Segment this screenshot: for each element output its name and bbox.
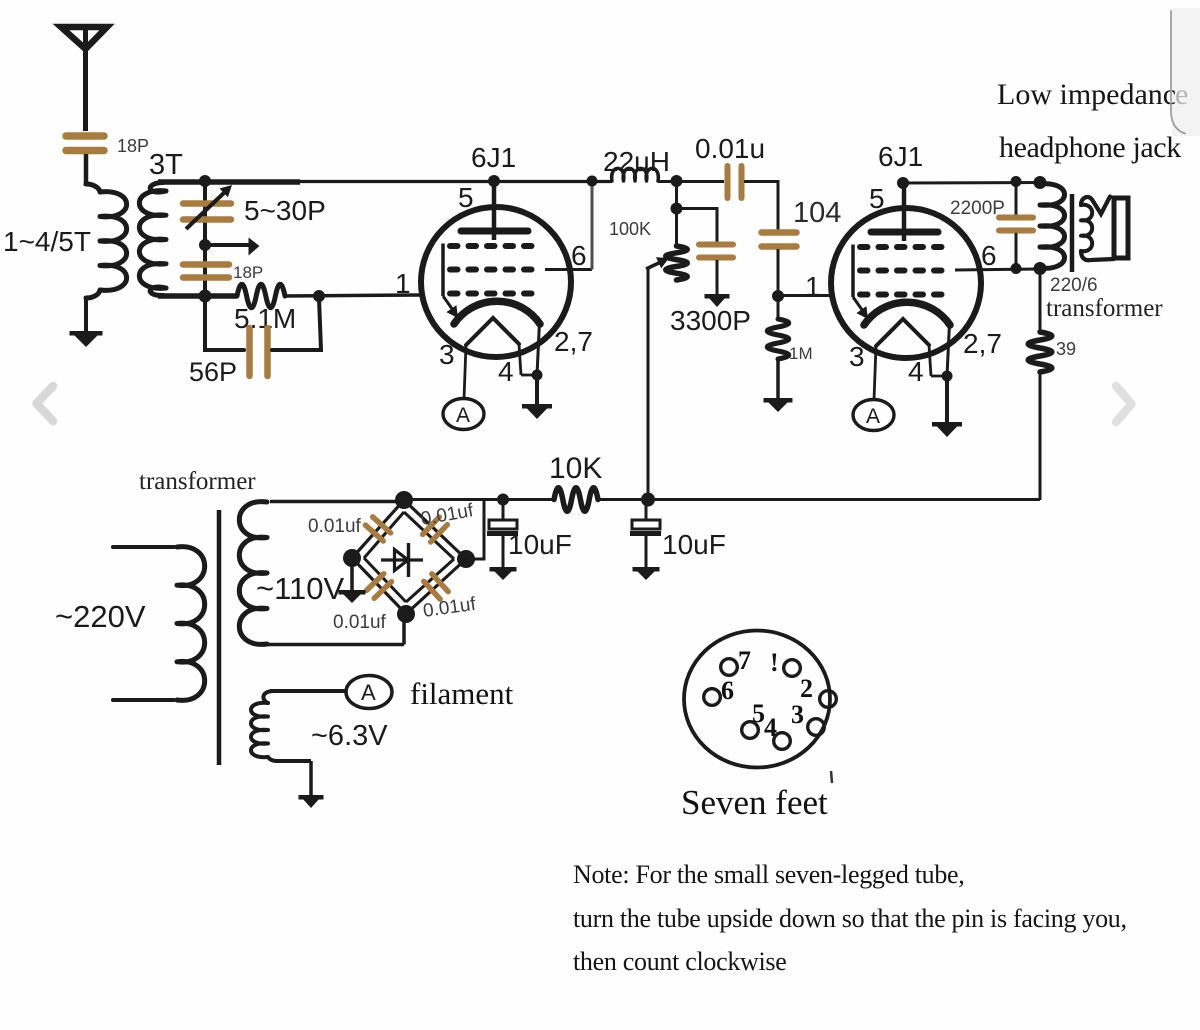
- label ~6.3V: [311, 720, 388, 752]
- wire V2 plate rail: [897, 177, 1040, 189]
- label 18P C1: [117, 136, 149, 156]
- label 18P C3: [233, 263, 263, 282]
- svg-text:transformer: transformer: [139, 468, 256, 495]
- node dots 2200P: [1011, 176, 1022, 274]
- svg-text:39: 39: [1056, 339, 1076, 359]
- pin 1 circle: [784, 660, 801, 677]
- wire antenna cap to coil L1: [84, 154, 89, 186]
- label 10uF (C8): [508, 529, 572, 560]
- label pin 2,7 V2: [963, 328, 1002, 359]
- svg-text:!: !: [770, 648, 779, 677]
- inductor L2 3T tuned coil: [139, 183, 166, 296]
- label pin 3 V2: [849, 341, 865, 372]
- svg-text:~220V: ~220V: [55, 599, 146, 634]
- label pin 1 V2: [805, 271, 821, 302]
- svg-text:18P: 18P: [233, 263, 263, 282]
- svg-text:5: 5: [752, 699, 765, 728]
- wire L1 to ground: [84, 296, 88, 333]
- node dot pot top: [671, 203, 683, 215]
- svg-text:2,7: 2,7: [554, 326, 593, 357]
- capacitor 0.01uf (bridge top-left): [365, 517, 390, 541]
- bridge rectifier inner diamond: [364, 512, 454, 602]
- svg-text:2,7: 2,7: [963, 328, 1002, 359]
- capacitor 0.01uf (bridge top-right): [423, 517, 448, 542]
- bridge rectifier D1-D4 outer diamond: [352, 500, 466, 614]
- transformer T1 filament winding ~6.3V: [251, 691, 347, 797]
- label 3300P: [670, 305, 751, 336]
- svg-text:then count clockwise: then count clockwise: [573, 947, 787, 976]
- svg-text:6: 6: [571, 240, 587, 271]
- label ~220V: [55, 599, 146, 634]
- svg-text:1: 1: [805, 271, 821, 302]
- capacitor C3 18P: [183, 265, 229, 278]
- capacitor C5 3300P: [677, 209, 734, 297]
- svg-text:0.01u: 0.01u: [695, 133, 765, 164]
- node dot bridge top: [395, 491, 413, 509]
- capacitor C8 10uF: [487, 500, 518, 569]
- svg-text:5: 5: [869, 183, 885, 214]
- wire R4 to node: [598, 498, 1040, 501]
- node dots T2 primary: [1034, 176, 1047, 275]
- svg-text:0.01uf: 0.01uf: [333, 612, 387, 633]
- left chevron (viewer prev): [37, 386, 54, 421]
- transformer T1 secondary ~110V: [239, 502, 404, 645]
- svg-text:6J1: 6J1: [471, 142, 516, 173]
- label pin 6 V1: [571, 240, 587, 271]
- svg-text:6J1: 6J1: [878, 141, 923, 172]
- svg-text:100K: 100K: [609, 219, 651, 239]
- antenna: [61, 27, 107, 131]
- node dot B+ node: [641, 493, 655, 507]
- node dot mid tap: [199, 239, 211, 251]
- label 39: [1056, 339, 1076, 359]
- label transformer (output): [1046, 295, 1163, 322]
- ground (R2 1M): [764, 398, 793, 412]
- node dot pin6 riser top: [587, 176, 598, 187]
- label 0.01uf bottom-left: [333, 612, 387, 633]
- node dot coil bottom: [199, 290, 212, 303]
- wire V1 plate to rail: [488, 175, 500, 187]
- svg-text:5: 5: [458, 182, 474, 213]
- pin label 3: [791, 700, 804, 729]
- pin label 4: [764, 713, 777, 742]
- label 0.01uf top-left: [308, 516, 362, 537]
- wire bridge right node to rail: [466, 500, 484, 559]
- transformer T1 primary ~220V: [113, 547, 205, 701]
- pin label 2: [800, 674, 813, 703]
- svg-text:Low impedanc: Low impedanc: [997, 78, 1176, 111]
- note line 3: [573, 947, 787, 976]
- inductor L1 1~4/5T antenna coil: [86, 184, 127, 298]
- label pin 5 V2: [869, 183, 885, 214]
- seven-pin socket outline: [684, 631, 830, 768]
- wire bottom rail left: [158, 293, 237, 299]
- node dot C8 top: [497, 494, 509, 506]
- pin label 1: [770, 648, 779, 677]
- label filament: [410, 676, 514, 711]
- tube V2 6J1 envelope and electrodes: [831, 182, 981, 437]
- ground (C5 3300P): [705, 294, 730, 307]
- wire V2 pin6 to transformer: [955, 269, 1040, 270]
- filament indicator A2: [346, 676, 392, 709]
- capacitor C1 18P (antenna coupling): [66, 136, 104, 151]
- svg-text:2200P: 2200P: [950, 198, 1005, 219]
- wire top rail: [298, 180, 612, 183]
- stray mark: [831, 771, 832, 783]
- label 6J1 (V1): [471, 142, 516, 173]
- note line 1: [573, 860, 965, 889]
- label ~110V: [256, 571, 345, 606]
- svg-text:6: 6: [981, 240, 997, 271]
- pin 5 circle: [742, 722, 759, 739]
- diode symbol (bridge center): [381, 543, 423, 577]
- svg-text:18P: 18P: [117, 136, 149, 156]
- label Low impedance: [997, 78, 1188, 111]
- label 0.01uf top-right: [419, 500, 475, 530]
- label 10K: [549, 452, 602, 485]
- svg-text:~110V: ~110V: [256, 571, 345, 606]
- label 3T: [149, 149, 183, 181]
- pin 4 circle: [774, 733, 791, 750]
- label 104: [793, 197, 841, 229]
- capacitor 0.01uf (bridge bottom-right): [424, 574, 448, 599]
- potentiometer RP1 100K: [646, 208, 687, 280]
- svg-text:6: 6: [721, 676, 734, 705]
- label 0.01u: [695, 133, 765, 164]
- wire bridge left node to ground: [350, 558, 354, 592]
- transformer T1 core: [217, 510, 222, 765]
- pin label 5: [752, 699, 765, 728]
- svg-text:5~30P: 5~30P: [244, 195, 326, 226]
- svg-text:A: A: [456, 404, 470, 427]
- svg-text:104: 104: [793, 197, 841, 229]
- wire V1 pin6 riser: [545, 181, 592, 270]
- label pin 6 V2: [981, 240, 997, 271]
- svg-text:~6.3V: ~6.3V: [311, 720, 388, 752]
- wire rail 22uH to C4: [658, 180, 724, 183]
- svg-text:0.01uf: 0.01uf: [308, 516, 362, 537]
- label 220/6: [1050, 275, 1098, 296]
- node dot bridge right: [457, 550, 475, 568]
- resistor R3 39: [1028, 268, 1052, 500]
- ground (bridge left node): [339, 590, 366, 603]
- svg-text:A: A: [361, 680, 376, 705]
- svg-text:3T: 3T: [149, 149, 183, 181]
- tap arrow (to gimmick): [205, 238, 260, 256]
- resistor R4 10K: [554, 488, 598, 512]
- svg-text:3: 3: [849, 341, 865, 372]
- svg-text:0.01uf: 0.01uf: [419, 500, 475, 530]
- svg-text:Seven feet: Seven feet: [681, 783, 828, 822]
- right chevron (viewer next): [1116, 386, 1132, 422]
- pin 7 circle: [721, 659, 738, 676]
- svg-text:headphone jack: headphone jack: [999, 131, 1181, 164]
- capacitor C4 0.01u coupling: [728, 166, 742, 198]
- svg-text:2: 2: [800, 674, 813, 703]
- node dot R1 right: [313, 290, 325, 302]
- transformer T2 primary winding: [1040, 184, 1065, 269]
- label 5~30P: [244, 195, 326, 226]
- capacitor C7 2200P: [999, 182, 1033, 268]
- svg-text:4: 4: [764, 713, 777, 742]
- svg-text:4: 4: [498, 356, 514, 387]
- resistor R1 5.1M grid leak: [237, 284, 285, 308]
- svg-text:filament: filament: [410, 676, 514, 711]
- svg-text:7: 7: [738, 646, 751, 675]
- label pin 1 V1: [395, 268, 411, 299]
- node dot bridge left: [343, 549, 361, 567]
- svg-text:Note: For the small seven-legg: Note: For the small seven-legged tube,: [573, 860, 965, 889]
- inductor L3 22uH: [612, 168, 659, 181]
- label 1~4/5T: [3, 226, 91, 257]
- label 56P: [189, 357, 237, 387]
- svg-text:transformer: transformer: [1046, 295, 1163, 322]
- label 6J1 (V2): [878, 141, 923, 172]
- ground (antenna coil): [70, 331, 103, 347]
- variable capacitor VC1 5~30P: [183, 185, 232, 229]
- svg-text:3: 3: [439, 339, 455, 370]
- svg-text:0.01uf: 0.01uf: [422, 594, 478, 622]
- wire C4 to corner: [744, 180, 780, 231]
- label headphone jack: [999, 131, 1181, 164]
- capacitor C9 10uF: [630, 500, 661, 569]
- wire grid node to V2 pin1: [778, 294, 831, 297]
- svg-text:220/6: 220/6: [1050, 275, 1098, 296]
- label pin 5 V1: [458, 182, 474, 213]
- svg-text:3300P: 3300P: [670, 305, 751, 336]
- svg-text:1: 1: [395, 268, 411, 299]
- svg-text:A: A: [866, 405, 880, 428]
- label 0.01uf bottom-right: [422, 594, 478, 622]
- label transformer (power): [139, 468, 256, 495]
- ground (C9): [633, 567, 660, 580]
- svg-text:1M: 1M: [789, 344, 813, 363]
- label pin 4 V2: [908, 356, 924, 387]
- node dot rail at 22uH out: [671, 175, 683, 187]
- pin 6 circle: [704, 689, 721, 706]
- svg-text:10uF: 10uF: [508, 529, 572, 560]
- pin 3 circle: [808, 719, 825, 736]
- svg-text:10K: 10K: [549, 452, 602, 485]
- label pin 4 V1: [498, 356, 514, 387]
- label Seven feet: [681, 783, 828, 822]
- capacitor 0.01uf (bridge bottom-left): [367, 574, 392, 599]
- note line 2: [573, 904, 1127, 933]
- svg-text:4: 4: [908, 356, 924, 387]
- wire dot to dot: [675, 181, 678, 208]
- wire R1 to tube: [285, 295, 421, 296]
- node dot VC1 top: [199, 175, 211, 187]
- svg-text:10uF: 10uF: [662, 529, 726, 560]
- capacitor C6 104: [762, 233, 797, 298]
- svg-text:turn the tube upside down so t: turn the tube upside down so that the pi…: [573, 904, 1127, 933]
- wire top rail thick: [158, 179, 300, 185]
- svg-text:22uH: 22uH: [603, 146, 670, 177]
- label 100K: [609, 219, 651, 239]
- resistor R2 1M grid resistor: [767, 296, 789, 400]
- label 1M: [789, 344, 813, 363]
- page curl line: [1171, 11, 1185, 134]
- wire pot wiper to B+ rail: [647, 267, 650, 499]
- svg-text:3: 3: [791, 700, 804, 729]
- ground (filament winding): [299, 795, 324, 808]
- node dot V2 grid: [772, 290, 784, 302]
- label 5.1M: [234, 303, 296, 334]
- pin 2 circle: [820, 691, 837, 708]
- headphone jack (low impedance): [1081, 197, 1128, 261]
- node dot bridge bottom: [397, 605, 415, 623]
- wire B+ rail: [404, 498, 554, 501]
- label 10uF (C9): [662, 529, 726, 560]
- svg-text:1~4/5T: 1~4/5T: [3, 226, 91, 257]
- label pin 3 V1: [439, 339, 455, 370]
- page margin shading: [1172, 8, 1200, 136]
- wire VC1 branch: [203, 182, 207, 296]
- tube V1 6J1 envelope and electrodes: [421, 181, 571, 430]
- transformer T2 core: [1070, 194, 1075, 272]
- svg-text:e: e: [1175, 78, 1188, 111]
- pin label 7: [738, 646, 751, 675]
- svg-text:56P: 56P: [189, 357, 237, 387]
- capacitor C2 56P loop: [205, 298, 321, 376]
- pin label 6: [721, 676, 734, 705]
- label 2200P: [950, 198, 1005, 219]
- label 22uH: [603, 146, 670, 177]
- ground (C8): [490, 567, 517, 580]
- label pin 2,7 V1: [554, 326, 593, 357]
